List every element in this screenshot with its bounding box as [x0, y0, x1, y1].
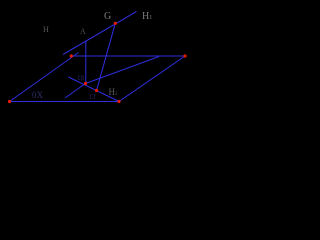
label G: [104, 11, 111, 22]
label H2: [109, 87, 118, 97]
label A: [80, 27, 86, 36]
wire: long line from P1 through P4 up to B1: [10, 53, 79, 102]
label H1: [142, 11, 152, 22]
node P2: [117, 100, 120, 103]
wire: segment H1 up-right to top edge of plane: [86, 57, 160, 84]
label 0X: [32, 90, 43, 100]
label 18: [77, 74, 84, 82]
wire: line through A and G to B1: [63, 12, 137, 55]
wire: line through H2 to P2: [69, 77, 120, 102]
node H2: [95, 89, 98, 92]
node P4: [70, 54, 73, 57]
label 13: [89, 93, 96, 101]
node P1: [8, 100, 11, 103]
wire: top edge of plane P4-P3: [71, 55, 186, 57]
wire: segment H1 down-left to bottom edge: [65, 84, 86, 99]
node G: [114, 22, 117, 25]
label H: [43, 25, 49, 34]
node H1: [84, 82, 87, 85]
wire: right edge of plane P2-P3: [119, 56, 185, 102]
wire: steep line G down to bottom edge: [97, 23, 116, 90]
wire: bottom edge of plane P1-P2: [10, 101, 120, 103]
wire: vertical segment A to H1: [85, 41, 87, 84]
node P3: [183, 54, 186, 57]
